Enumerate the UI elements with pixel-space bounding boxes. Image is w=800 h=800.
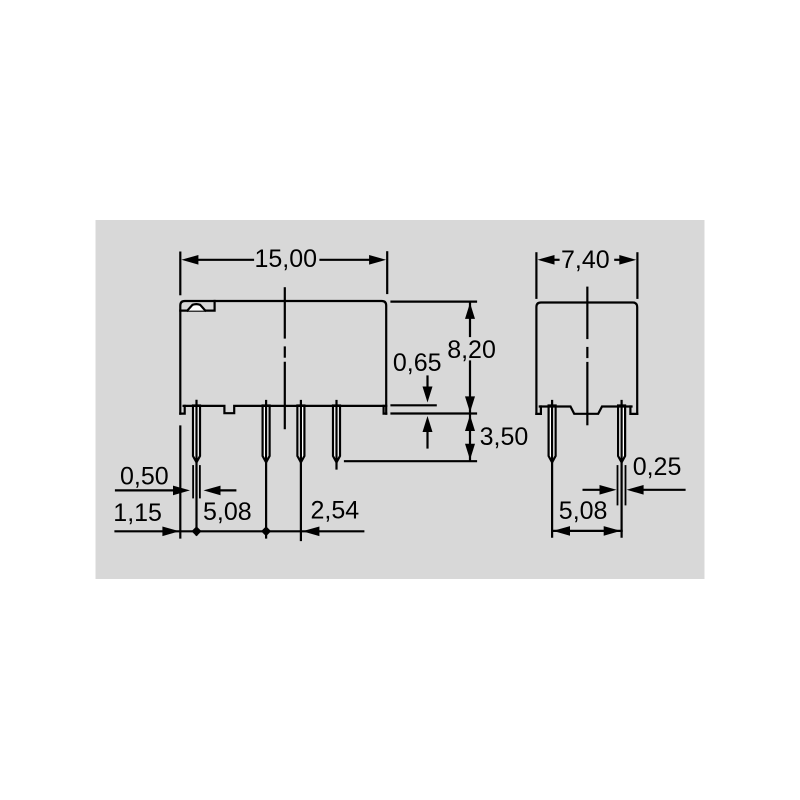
svg-text:3,50: 3,50 <box>480 423 529 451</box>
svg-text:7,40: 7,40 <box>561 246 610 274</box>
svg-text:15,00: 15,00 <box>255 245 318 273</box>
svg-text:5,08: 5,08 <box>559 497 608 525</box>
svg-text:2,54: 2,54 <box>311 496 360 524</box>
svg-text:5,08: 5,08 <box>203 498 252 526</box>
svg-text:0,25: 0,25 <box>633 453 682 481</box>
svg-text:0,50: 0,50 <box>120 463 169 491</box>
svg-text:1,15: 1,15 <box>113 499 162 527</box>
svg-text:8,20: 8,20 <box>447 336 496 364</box>
svg-text:0,65: 0,65 <box>393 349 442 377</box>
